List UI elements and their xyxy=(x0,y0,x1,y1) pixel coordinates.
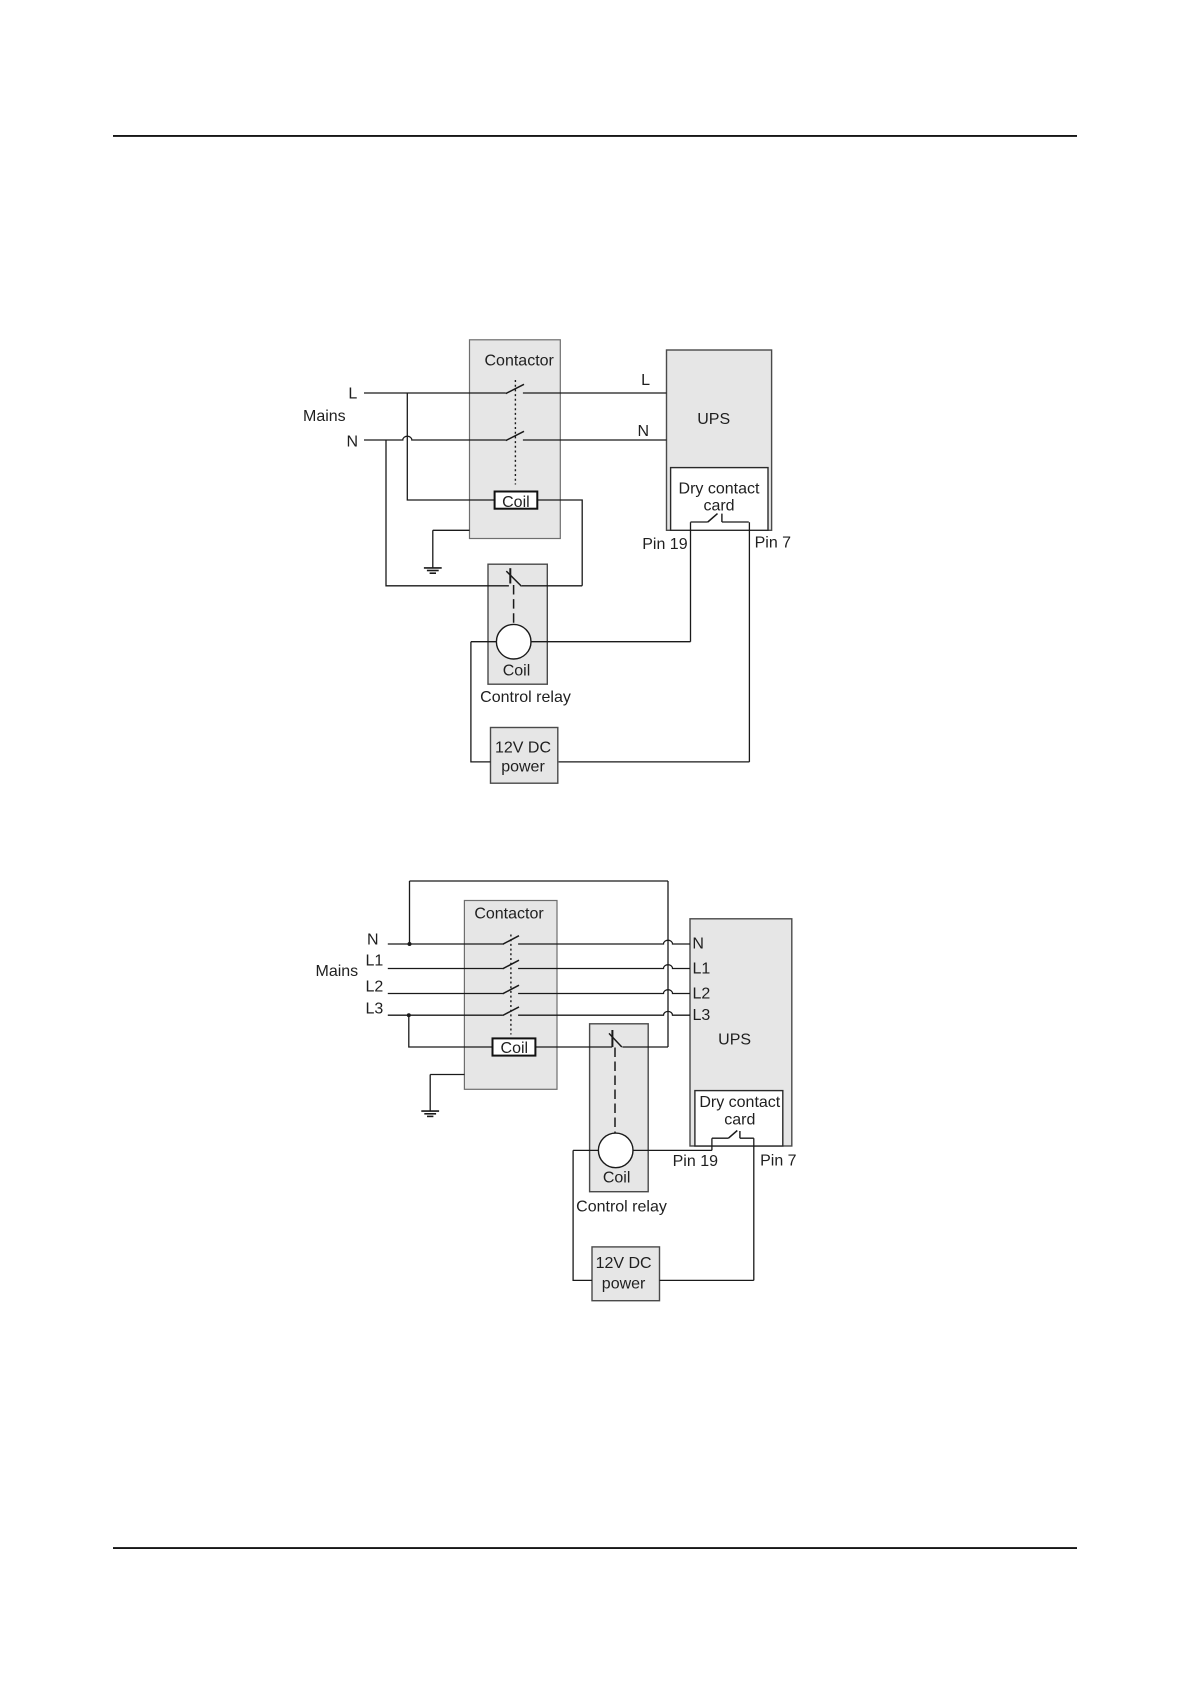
svg-text:Pin 19: Pin 19 xyxy=(673,1153,718,1170)
svg-text:Mains: Mains xyxy=(303,408,346,425)
svg-text:L: L xyxy=(348,386,357,403)
svg-text:UPS: UPS xyxy=(718,1031,751,1048)
svg-text:Coil: Coil xyxy=(502,494,530,511)
svg-text:card: card xyxy=(703,498,734,515)
svg-text:L2: L2 xyxy=(366,979,384,996)
svg-text:N: N xyxy=(346,434,358,451)
svg-text:Contactor: Contactor xyxy=(474,906,544,923)
svg-text:Control relay: Control relay xyxy=(576,1199,667,1216)
svg-text:L1: L1 xyxy=(693,961,711,978)
svg-text:power: power xyxy=(501,759,545,776)
svg-text:card: card xyxy=(724,1112,755,1129)
svg-text:L3: L3 xyxy=(366,1001,384,1018)
svg-text:N: N xyxy=(637,423,649,440)
svg-text:Coil: Coil xyxy=(501,1040,529,1057)
svg-text:power: power xyxy=(602,1275,646,1292)
svg-text:Pin 7: Pin 7 xyxy=(760,1152,797,1169)
svg-text:12V DC: 12V DC xyxy=(596,1255,652,1272)
svg-text:Dry contact: Dry contact xyxy=(679,480,760,497)
svg-text:Coil: Coil xyxy=(603,1169,631,1186)
svg-text:L1: L1 xyxy=(366,953,384,970)
svg-text:Coil: Coil xyxy=(503,662,531,679)
svg-text:Dry contact: Dry contact xyxy=(699,1094,780,1111)
svg-text:Pin 7: Pin 7 xyxy=(755,534,792,551)
svg-text:Pin 19: Pin 19 xyxy=(642,536,687,553)
svg-text:N: N xyxy=(692,936,704,953)
svg-text:12V DC: 12V DC xyxy=(495,739,551,756)
svg-text:L3: L3 xyxy=(693,1007,711,1024)
svg-text:UPS: UPS xyxy=(697,411,730,428)
svg-text:N: N xyxy=(367,932,379,949)
svg-text:Control relay: Control relay xyxy=(480,689,571,706)
svg-text:Contactor: Contactor xyxy=(485,353,555,370)
svg-text:Mains: Mains xyxy=(316,963,359,980)
svg-text:L2: L2 xyxy=(693,986,711,1003)
svg-text:L: L xyxy=(641,372,650,389)
